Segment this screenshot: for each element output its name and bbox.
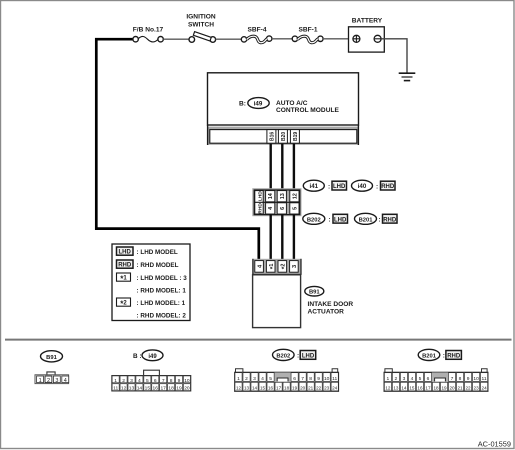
wire: F/B No.17 to ignition switch xyxy=(163,38,189,40)
svg-text:F/B No.17: F/B No.17 xyxy=(133,27,164,34)
svg-text:11: 11 xyxy=(113,386,118,392)
legend *2 xyxy=(117,298,187,320)
svg-text:19: 19 xyxy=(292,385,298,390)
wire: module pin B20 to connector block xyxy=(281,144,283,189)
pin 5 (RHD) xyxy=(290,203,299,214)
wire: module pin B16 to connector block xyxy=(270,144,272,189)
svg-text:ACTUATOR: ACTUATOR xyxy=(308,309,345,316)
svg-text:13: 13 xyxy=(393,385,399,390)
pin 13 (LHD) xyxy=(277,191,286,202)
svg-text:2: 2 xyxy=(245,376,248,382)
svg-text:B19: B19 xyxy=(293,132,299,141)
actuator pin 3 xyxy=(290,261,299,273)
svg-text:4: 4 xyxy=(138,378,141,384)
svg-text:4: 4 xyxy=(261,376,264,382)
svg-text:i49: i49 xyxy=(254,101,263,108)
svg-text:2: 2 xyxy=(47,378,50,384)
pin 14 (LHD) xyxy=(266,191,275,202)
svg-text:1: 1 xyxy=(114,378,117,384)
connector label B201 : RHD xyxy=(355,213,398,224)
svg-text:5: 5 xyxy=(419,376,422,382)
auto A/C control module U1 box xyxy=(208,73,359,125)
connector label i41 : LHD xyxy=(303,180,346,191)
svg-text:SBF-4: SBF-4 xyxy=(247,27,266,34)
svg-text:24: 24 xyxy=(332,385,338,390)
svg-text:LHD: LHD xyxy=(333,184,346,190)
svg-text:2: 2 xyxy=(395,376,398,382)
svg-text:15: 15 xyxy=(260,385,266,390)
svg-text::: : xyxy=(329,216,331,223)
svg-text:9: 9 xyxy=(467,376,470,382)
svg-text:3: 3 xyxy=(55,378,58,384)
svg-text:18: 18 xyxy=(168,386,174,392)
svg-text:3: 3 xyxy=(130,378,133,384)
svg-text:SWITCH: SWITCH xyxy=(188,22,214,29)
svg-text:5: 5 xyxy=(292,207,298,210)
svg-text:: RHD MODEL: : RHD MODEL xyxy=(137,262,179,269)
svg-text:B:: B: xyxy=(239,100,246,107)
svg-text:17: 17 xyxy=(425,385,431,390)
svg-text:6: 6 xyxy=(427,376,430,382)
svg-text:B :: B : xyxy=(133,353,142,360)
svg-text:17: 17 xyxy=(160,386,166,392)
svg-text:13: 13 xyxy=(280,193,286,199)
battery xyxy=(349,27,385,52)
svg-text:RHD: RHD xyxy=(257,203,263,214)
svg-text:7: 7 xyxy=(301,376,304,382)
intermediate connector block i41/i40 B202/B201 xyxy=(252,188,301,216)
svg-text:1: 1 xyxy=(39,378,42,384)
svg-text::: : xyxy=(443,353,445,360)
svg-text:6: 6 xyxy=(293,376,296,382)
pin 12 (LHD) xyxy=(290,191,299,202)
svg-text:B91: B91 xyxy=(46,355,57,361)
svg-text:12: 12 xyxy=(121,386,127,392)
pin 6 (RHD) xyxy=(277,203,286,214)
svg-text:: RHD MODEL: 1: : RHD MODEL: 1 xyxy=(137,288,187,295)
pin 4 (RHD) xyxy=(266,203,275,214)
connector view B201 : RHD xyxy=(384,349,488,391)
svg-text:24: 24 xyxy=(482,385,488,390)
svg-text:RHD: RHD xyxy=(447,354,461,360)
svg-text:4: 4 xyxy=(411,376,414,382)
svg-text:8: 8 xyxy=(459,376,462,382)
connector view B91 xyxy=(35,351,69,384)
svg-text:B202: B202 xyxy=(276,353,290,359)
svg-text:AC-01559: AC-01559 xyxy=(478,440,511,449)
svg-text:12: 12 xyxy=(236,385,242,390)
svg-text:13: 13 xyxy=(129,386,135,392)
svg-text:i49: i49 xyxy=(148,354,157,360)
svg-text:12: 12 xyxy=(292,193,298,199)
svg-text:LHD: LHD xyxy=(119,250,132,256)
svg-text:11: 11 xyxy=(332,376,337,382)
connector label i40 : RHD xyxy=(352,180,396,191)
svg-text:9: 9 xyxy=(178,378,181,384)
wire: ignition switch to SBF-4 xyxy=(216,38,242,40)
wire: SBF-4 to SBF-1 xyxy=(272,38,292,40)
svg-text:15: 15 xyxy=(145,386,151,392)
svg-text:5: 5 xyxy=(146,378,149,384)
legend LHD MODEL xyxy=(117,247,178,256)
svg-text:i41: i41 xyxy=(309,183,318,190)
svg-text:23: 23 xyxy=(474,385,480,390)
svg-text:: LHD MODEL: 1: : LHD MODEL: 1 xyxy=(137,300,186,307)
svg-text:RHD: RHD xyxy=(383,217,397,223)
svg-text:4: 4 xyxy=(64,378,67,384)
connector view B: i49 xyxy=(112,350,191,392)
module connector strip xyxy=(208,125,359,145)
svg-text:B201: B201 xyxy=(422,353,437,359)
pin B16 on module connector xyxy=(267,130,276,144)
svg-text:17: 17 xyxy=(276,385,282,390)
svg-text:B202: B202 xyxy=(307,217,321,223)
svg-text:: RHD MODEL: 2: : RHD MODEL: 2 xyxy=(137,313,187,320)
svg-text:7: 7 xyxy=(162,378,165,384)
intake door actuator connector strip xyxy=(252,259,301,275)
svg-text:3: 3 xyxy=(403,376,406,382)
connector view B202 : LHD xyxy=(235,349,339,391)
svg-text:12: 12 xyxy=(385,385,391,390)
svg-text::: : xyxy=(379,216,381,223)
svg-text:18: 18 xyxy=(284,385,290,390)
svg-text:14: 14 xyxy=(252,385,258,390)
svg-text:CONTROL MODULE: CONTROL MODULE xyxy=(276,107,339,114)
svg-text::: : xyxy=(328,183,330,190)
wire: module pin B19 to connector block xyxy=(293,144,295,189)
svg-text:16: 16 xyxy=(417,385,423,390)
svg-text:i40: i40 xyxy=(358,183,367,190)
wire: connector block to actuator pin *1 xyxy=(270,215,272,261)
ignition switch xyxy=(189,32,216,43)
svg-text:7: 7 xyxy=(451,376,454,382)
svg-text:20: 20 xyxy=(300,385,306,390)
svg-text:RHD: RHD xyxy=(381,184,395,190)
svg-text:5: 5 xyxy=(269,376,272,382)
svg-text:21: 21 xyxy=(457,385,463,390)
svg-text:20: 20 xyxy=(449,385,455,390)
connector label B202 : LHD xyxy=(303,213,348,224)
svg-text:B201: B201 xyxy=(359,217,374,223)
svg-text:22: 22 xyxy=(316,385,322,390)
svg-text:23: 23 xyxy=(324,385,330,390)
svg-text::: : xyxy=(376,183,378,190)
svg-text:21: 21 xyxy=(308,385,314,390)
svg-text:14: 14 xyxy=(268,192,274,199)
legend RHD MODEL xyxy=(117,260,179,269)
wire: thick battery feed from F/B No.17 down left side and across to intake door actuator pin 4 xyxy=(96,39,258,260)
intake door actuator body xyxy=(253,275,301,328)
svg-text:18: 18 xyxy=(433,385,439,390)
svg-text:8: 8 xyxy=(170,378,173,384)
svg-text:10: 10 xyxy=(473,376,479,382)
connector oval B91 at actuator xyxy=(305,286,324,296)
svg-text:AUTO A/C: AUTO A/C xyxy=(276,100,308,107)
wire: battery negative to ground xyxy=(381,39,407,73)
svg-text:10: 10 xyxy=(184,378,190,384)
ground xyxy=(399,73,416,80)
actuator pin *1 xyxy=(266,261,276,273)
fuse SBF-4 xyxy=(241,36,272,43)
svg-text:: LHD MODEL : 3: : LHD MODEL : 3 xyxy=(137,275,188,282)
svg-text:1: 1 xyxy=(387,376,390,382)
svg-text:19: 19 xyxy=(441,385,447,390)
svg-text:SBF-1: SBF-1 xyxy=(298,27,317,34)
svg-text:LHD: LHD xyxy=(257,191,263,202)
svg-text:6: 6 xyxy=(280,207,286,210)
separator line xyxy=(5,339,512,341)
svg-text:9: 9 xyxy=(317,376,320,382)
svg-text:: LHD MODEL: : LHD MODEL xyxy=(137,249,178,256)
svg-text:LHD: LHD xyxy=(334,217,347,223)
svg-text:IGNITION: IGNITION xyxy=(186,14,216,21)
svg-text:BATTERY: BATTERY xyxy=(352,18,383,25)
legend *1 xyxy=(117,273,188,295)
pin B20 on module connector xyxy=(278,130,287,144)
svg-text:8: 8 xyxy=(309,376,312,382)
svg-text:22: 22 xyxy=(465,385,471,390)
svg-text:2: 2 xyxy=(122,378,125,384)
svg-text:LHD: LHD xyxy=(302,354,315,360)
svg-text:19: 19 xyxy=(176,386,182,392)
svg-text:1: 1 xyxy=(237,376,240,382)
svg-text:11: 11 xyxy=(482,376,487,382)
actuator pin 4 xyxy=(255,261,264,273)
wire: connector block to actuator pin *2 xyxy=(281,215,283,261)
svg-text:14: 14 xyxy=(137,386,143,392)
svg-text:3: 3 xyxy=(253,376,256,382)
svg-text:INTAKE DOOR: INTAKE DOOR xyxy=(308,301,354,308)
svg-text:RHD: RHD xyxy=(118,263,132,269)
svg-text:16: 16 xyxy=(153,386,159,392)
wire: connector block to actuator pin 3 xyxy=(293,215,295,261)
fuse SBF-1 xyxy=(292,36,323,43)
legend box xyxy=(112,244,190,321)
actuator pin *2 xyxy=(278,261,288,273)
svg-text:15: 15 xyxy=(409,385,415,390)
svg-text:3: 3 xyxy=(292,265,298,268)
svg-text:10: 10 xyxy=(324,376,330,382)
svg-text:16: 16 xyxy=(268,385,274,390)
wire: SBF-1 to battery xyxy=(323,38,349,40)
svg-text:6: 6 xyxy=(154,378,157,384)
pin B19 on module connector xyxy=(290,130,299,144)
svg-text:B20: B20 xyxy=(281,132,287,141)
svg-text:13: 13 xyxy=(244,385,250,390)
svg-text:14: 14 xyxy=(401,385,407,390)
svg-text::: : xyxy=(297,353,299,360)
svg-text:B16: B16 xyxy=(269,132,275,141)
svg-text:B91: B91 xyxy=(309,290,320,296)
fuse F/B No.17 xyxy=(133,36,163,41)
svg-text:20: 20 xyxy=(184,386,190,392)
